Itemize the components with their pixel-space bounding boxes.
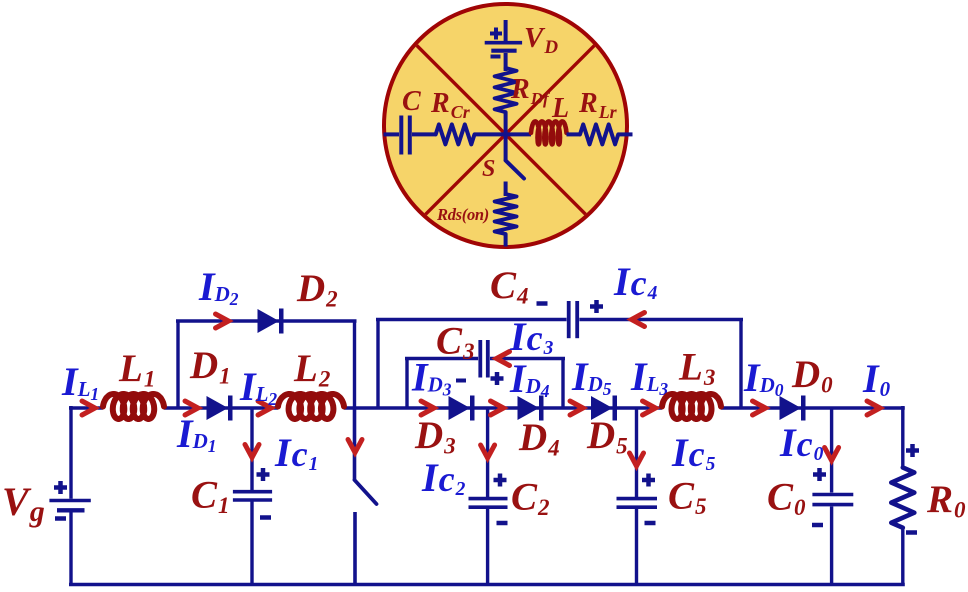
capacitor C4 plates [567, 301, 571, 338]
capacitor C5 plates [617, 497, 658, 501]
voltage source VD (battery in top quadrant) [504, 20, 508, 41]
svg-text:L: L [551, 93, 569, 124]
resistor R0 [891, 468, 914, 528]
wire C4 branch top right segment [579, 318, 743, 321]
wire left riser (Vg branch) [69, 406, 72, 499]
diode D3 [449, 396, 471, 420]
switch S main lower contact wire [353, 512, 357, 585]
wire C3 branch left riser [405, 359, 408, 409]
capacitor C0 plates [812, 493, 853, 497]
svg-text:C2: C2 [511, 476, 550, 521]
diode D4 [518, 396, 540, 420]
wire main rail segment L3 to R0 [721, 406, 905, 409]
svg-text:ID5: ID5 [571, 354, 612, 399]
C3 polarity minus [456, 379, 466, 383]
C5 polarity minus [645, 521, 656, 526]
svg-text:L1: L1 [118, 347, 155, 392]
C2 polarity minus [497, 521, 508, 526]
svg-text:I0: I0 [862, 356, 891, 401]
switch S main (upper contact and blade) [353, 408, 357, 480]
arrow ID0 current [753, 401, 766, 415]
svg-text:L2: L2 [293, 347, 330, 392]
wire D2 branch right riser [353, 321, 356, 408]
diode D0 [780, 396, 802, 420]
inductor L2 [278, 394, 344, 419]
arrow I0 current [867, 401, 880, 415]
capacitor C3 plates [478, 340, 482, 378]
resistor Rds(on) [495, 194, 517, 234]
voltage source Vg battery plates [49, 499, 90, 502]
wire C4 branch top left segment [376, 318, 567, 321]
arrow ID5 current [570, 401, 583, 415]
svg-text:Vg: Vg [2, 479, 45, 528]
R0 polarity plus [906, 448, 919, 453]
VD polarity minus [491, 55, 501, 59]
arrow Ic0 current [825, 448, 839, 461]
resistor RDf [495, 68, 517, 112]
svg-text:C5: C5 [668, 475, 707, 520]
diode D5 [591, 396, 613, 420]
svg-text:Ic5: Ic5 [671, 430, 716, 475]
arrow switch current [348, 440, 362, 453]
R0 polarity minus [906, 530, 917, 535]
svg-text:ID2: ID2 [198, 264, 239, 309]
svg-text:R0: R0 [926, 478, 966, 523]
inductor L1 [103, 394, 164, 419]
arrow Ic3 current [497, 352, 510, 366]
svg-text:Ic2: Ic2 [421, 455, 466, 500]
wire C4 branch right riser [739, 320, 742, 409]
C2 polarity plus [494, 478, 507, 483]
svg-text:IL2: IL2 [239, 364, 277, 409]
wire C5 riser [635, 408, 638, 497]
inductor L (right quadrant) [506, 132, 531, 136]
svg-text:S: S [482, 156, 495, 182]
inductor L3 [662, 394, 721, 419]
wire C3 branch top left segment [405, 357, 478, 360]
wire C3 branch right riser [561, 359, 564, 409]
svg-text:D1: D1 [189, 344, 231, 389]
svg-text:C4: C4 [490, 264, 529, 309]
svg-text:C0: C0 [767, 476, 806, 521]
C1 polarity minus [260, 515, 271, 520]
resistor RCr [436, 124, 475, 144]
wire D2 branch left riser [176, 321, 179, 408]
C0 polarity minus [812, 523, 823, 528]
wire main rail segment Vg to L1 [69, 406, 103, 409]
arrow Ic4 current [632, 313, 645, 327]
svg-text:D4: D4 [518, 416, 560, 461]
arrow Ic5 current [630, 453, 644, 466]
arrow ID1 current [185, 401, 198, 415]
Vg polarity plus [54, 485, 67, 490]
C0 polarity plus [813, 472, 826, 477]
capacitor C2 plates [469, 497, 508, 501]
arrow Ic1 current [245, 445, 259, 458]
C4 polarity plus [590, 304, 603, 309]
Vg polarity minus [55, 516, 66, 521]
model circle inset (non-ideal component key) [384, 4, 627, 247]
svg-text:IL3: IL3 [630, 354, 668, 399]
quadrant divider X lines [376, 4, 636, 264]
capacitor C (left quadrant) [384, 132, 400, 136]
resistor RLr [580, 124, 618, 144]
svg-text:D2: D2 [296, 267, 338, 312]
C5 polarity plus [642, 478, 655, 483]
svg-text:L3: L3 [678, 346, 715, 391]
svg-text:C1: C1 [191, 474, 230, 519]
arrow ID4 current [491, 401, 504, 415]
svg-text:C: C [402, 86, 421, 117]
svg-text:ID4: ID4 [509, 356, 550, 401]
svg-text:Rds(on): Rds(on) [436, 205, 489, 224]
wire C2 riser [486, 408, 489, 497]
wire right riser (R0 branch) [901, 406, 904, 468]
svg-text:Ic0: Ic0 [779, 420, 824, 465]
arrow Ic2 current [481, 445, 495, 458]
wire C1 riser [250, 408, 253, 490]
capacitor C1 plates [233, 490, 272, 494]
arrow IL2 current [258, 401, 271, 415]
wire C3 branch top right segment [490, 357, 565, 360]
diode D2 [258, 309, 280, 333]
svg-text:D5: D5 [586, 414, 628, 459]
wire D2 branch top rail [176, 319, 357, 322]
arrow IL3 current [643, 401, 656, 415]
VD polarity plus [490, 32, 502, 36]
svg-text:Ic1: Ic1 [274, 430, 318, 475]
wire C0 riser [830, 408, 833, 493]
diode D1 [207, 396, 229, 420]
C3 polarity plus [491, 376, 504, 381]
svg-text:D0: D0 [791, 353, 833, 398]
svg-text:IL1: IL1 [61, 359, 99, 404]
arrow ID3 current [421, 401, 434, 415]
arrow IL1 current [82, 401, 95, 415]
svg-text:Ic4: Ic4 [613, 259, 658, 304]
arrow ID2 current [216, 314, 229, 328]
svg-text:C3: C3 [436, 320, 475, 365]
wire bottom rail [69, 583, 905, 586]
C1 polarity plus [257, 472, 270, 477]
wire main rail segment L2 to L3 [344, 406, 662, 409]
wire main rail segment L1 to L2 [164, 406, 278, 409]
C4 polarity minus [537, 301, 548, 306]
wire C4 branch left riser [376, 320, 379, 409]
switch S (bottom quadrant) [504, 134, 508, 160]
svg-text:D3: D3 [414, 414, 456, 459]
svg-text:ID0: ID0 [743, 355, 784, 400]
